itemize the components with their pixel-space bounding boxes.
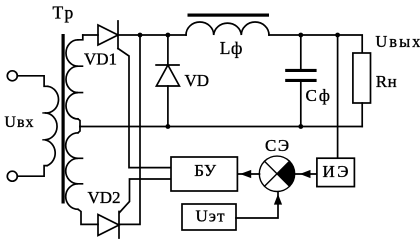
capacitor Cf wire top bbox=[300, 35, 302, 69]
svg-text:Uвых: Uвых bbox=[375, 32, 420, 51]
transformer secondary winding lower bbox=[66, 133, 78, 210]
diode VD2 bbox=[98, 212, 119, 239]
wire bbox=[361, 103, 363, 127]
block Uet bbox=[182, 204, 236, 230]
wire + arrow IE to SE bbox=[295, 173, 316, 175]
input terminal bottom bbox=[7, 171, 17, 181]
transformer core bbox=[62, 34, 65, 204]
wire bbox=[78, 127, 80, 133]
junction node rectifier output / VD2 branch bbox=[138, 33, 143, 38]
capacitor Cf bbox=[285, 69, 316, 72]
svg-text:Uвх: Uвх bbox=[4, 114, 34, 131]
block IE bbox=[317, 158, 355, 186]
diode VD (freewheeling) wire top bbox=[167, 35, 169, 65]
bottom rail (center tap) bbox=[80, 126, 362, 128]
svg-text:Rн: Rн bbox=[376, 72, 397, 91]
svg-text:Сф: Сф bbox=[306, 86, 332, 105]
transformer primary winding bbox=[45, 86, 59, 165]
wire bbox=[78, 119, 80, 127]
wire bbox=[78, 35, 83, 40]
junction node IE sense / top rail bbox=[335, 33, 340, 38]
wire bbox=[17, 76, 47, 87]
block BU bbox=[171, 157, 237, 191]
junction node VD anode / top rail bbox=[166, 33, 171, 38]
wire IE sense line bbox=[337, 35, 339, 158]
junction node VD cathode / bottom rail bbox=[166, 124, 171, 129]
wire + arrow SE to BU bbox=[238, 173, 260, 175]
winding cusp ticks bbox=[43, 113, 45, 140]
svg-text:ИЭ: ИЭ bbox=[323, 162, 352, 181]
wire (top rail right) bbox=[269, 35, 362, 53]
inductor Lf winding bbox=[186, 22, 269, 35]
svg-text:Тр: Тр bbox=[53, 3, 76, 23]
comparator SE bbox=[259, 156, 294, 191]
svg-text:VD2: VD2 bbox=[88, 188, 121, 207]
svg-text:Uэт: Uэт bbox=[196, 206, 226, 225]
junction node Cf top / top rail bbox=[298, 33, 303, 38]
wire bbox=[78, 209, 98, 224]
svg-text:СЭ: СЭ bbox=[265, 136, 291, 155]
wire + arrow Uet to SE bbox=[236, 192, 278, 218]
wire top node to VD2 cathode bbox=[119, 35, 140, 224]
winding cusp ticks bbox=[78, 66, 83, 92]
diode VD1 bbox=[98, 21, 118, 49]
diode VD bbox=[156, 65, 179, 86]
wire (top rail) bbox=[118, 34, 186, 36]
winding cusp ticks bbox=[78, 158, 83, 184]
wire bbox=[300, 82, 302, 127]
inductor Lf core bar bbox=[188, 14, 270, 17]
wire VD1 cathode to BU bbox=[118, 49, 171, 168]
wire bbox=[17, 166, 47, 177]
svg-text:БУ: БУ bbox=[194, 161, 217, 180]
svg-text:VD1: VD1 bbox=[84, 50, 117, 69]
svg-text:VD: VD bbox=[185, 71, 210, 90]
wire VD2 cathode to BU bbox=[120, 179, 172, 213]
wire bbox=[167, 86, 169, 127]
input terminal top bbox=[7, 71, 17, 81]
junction node Cf bottom / bottom rail bbox=[298, 124, 303, 129]
transformer secondary winding upper bbox=[66, 40, 78, 119]
svg-text:Lф: Lф bbox=[220, 38, 243, 58]
resistor Rn bbox=[353, 53, 371, 103]
wire (anode VD1) bbox=[83, 34, 98, 36]
